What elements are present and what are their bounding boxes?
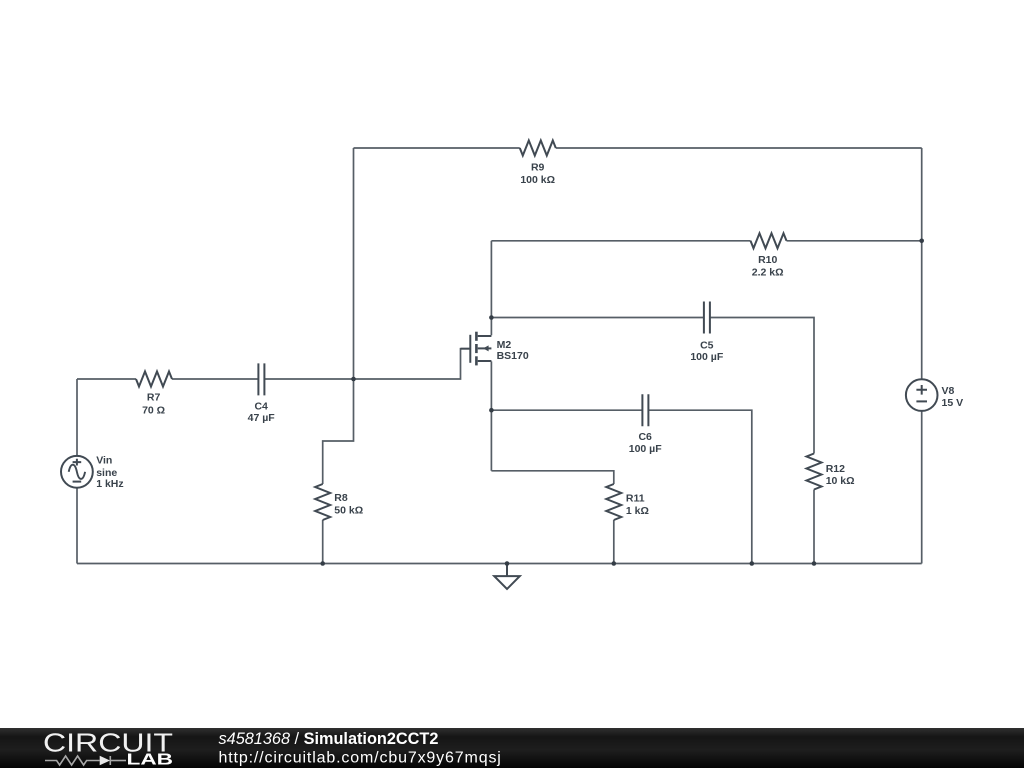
footer bar [0,728,1024,768]
capacitor C5 [704,302,710,334]
svg-text:C5: C5 [700,339,714,351]
wire C4 to gate jog [264,349,470,379]
transistor M2 drain lead [478,335,492,337]
svg-text:100 µF: 100 µF [690,351,723,363]
wire bottom ground rail [77,563,922,565]
svg-text:http://circuitlab.com/cbu7x9y6: http://circuitlab.com/cbu7x9y67mqsj [219,750,502,767]
svg-text:C4: C4 [254,400,268,412]
node dot drain/C5 [489,315,494,320]
svg-text:R9: R9 [531,162,545,174]
svg-text:R8: R8 [334,492,348,504]
svg-text:V8: V8 [942,385,955,397]
wire left rail bottom [76,488,78,564]
resistor R7 [136,372,172,387]
source Vin circle [61,456,93,488]
wire R11 bottom lead [613,520,615,564]
resistor R9 [520,141,556,156]
node dot gate [351,377,356,382]
M2 channel bar bottom [475,356,478,365]
wire right rail top (R9 to V8) [921,148,923,379]
wire C5 left segment [491,317,704,319]
wire source to R11 [491,471,613,484]
svg-text:15 V: 15 V [942,397,964,409]
svg-text:70 Ω: 70 Ω [142,405,165,417]
svg-text:1 kΩ: 1 kΩ [626,505,649,517]
node dot ground symbol [505,561,510,566]
resistor R8 [315,484,330,520]
wire C6 right segment down to ground rail [648,410,751,563]
Vin plus sign [73,459,82,466]
svg-text:R11: R11 [626,493,645,505]
node dot C6/ground rail [750,561,755,566]
svg-text:2.2 kΩ: 2.2 kΩ [752,266,784,278]
V8 plus sign [916,385,927,395]
svg-text:R7: R7 [147,392,161,404]
wire right rail bottom (V8 to ground rail) [921,411,923,564]
wire vertical from R9 down to gate node [353,148,355,379]
svg-text:R10: R10 [758,254,777,266]
svg-text:50 kΩ: 50 kΩ [334,505,363,517]
M2 body line [478,347,492,349]
node dot R10/right rail [919,239,924,244]
resistor R12 [807,454,822,490]
wire gate node to R8 jog [323,379,354,484]
wire C5 right segment to R12 [710,318,814,454]
Vin sine wave [69,465,85,479]
logo diode triangle [100,756,110,766]
svg-text:47 µF: 47 µF [248,412,276,424]
wire R10 left segment [491,240,750,242]
wire drain vertical [490,241,492,335]
svg-text:s4581368 / Simulation2CCT2: s4581368 / Simulation2CCT2 [219,730,439,748]
V8 minus sign [916,400,927,402]
capacitor C4 [258,363,264,395]
wire source vertical [490,361,492,470]
wire R10 right segment [787,240,922,242]
svg-text:10 kΩ: 10 kΩ [826,475,855,487]
svg-text:100 µF: 100 µF [629,443,662,455]
Vin minus sign [73,481,82,483]
wire C6 left segment [491,409,642,411]
wire R7 to C4 [172,378,258,380]
logo resistor-diode glyph [45,756,126,765]
svg-text:Vin: Vin [96,455,112,467]
M2 gate pole [469,335,471,363]
svg-text:LAB: LAB [127,751,174,768]
node dot R11/ground rail [612,561,617,566]
node dot R12/ground rail [812,561,817,566]
svg-text:C6: C6 [638,431,652,443]
svg-text:BS170: BS170 [497,350,529,362]
svg-text:R12: R12 [826,463,845,475]
M2 gate lead [461,348,471,350]
node dot R8/ground rail [320,561,325,566]
M2 source lead [478,360,492,362]
node dot source/C6 [489,408,494,413]
resistor R10 [751,233,787,248]
wire R12 bottom lead [813,490,815,564]
svg-text:sine: sine [96,467,117,479]
wire R8 bottom lead [322,520,324,564]
wire top R9 net right segment [556,147,922,149]
wire top R9 net left segment [354,147,520,149]
M2 channel bar middle [475,344,478,353]
capacitor C6 [642,394,648,426]
svg-text:100 kΩ: 100 kΩ [520,174,555,186]
ground symbol [494,564,520,590]
M2 channel bar top [475,332,478,341]
wire left rail top [76,379,78,456]
svg-text:1 kHz: 1 kHz [96,478,123,490]
voltage source V8 circle [906,379,938,411]
resistor R11 [606,484,621,520]
wire input left segment [77,378,136,380]
M2 body arrow [483,345,489,351]
